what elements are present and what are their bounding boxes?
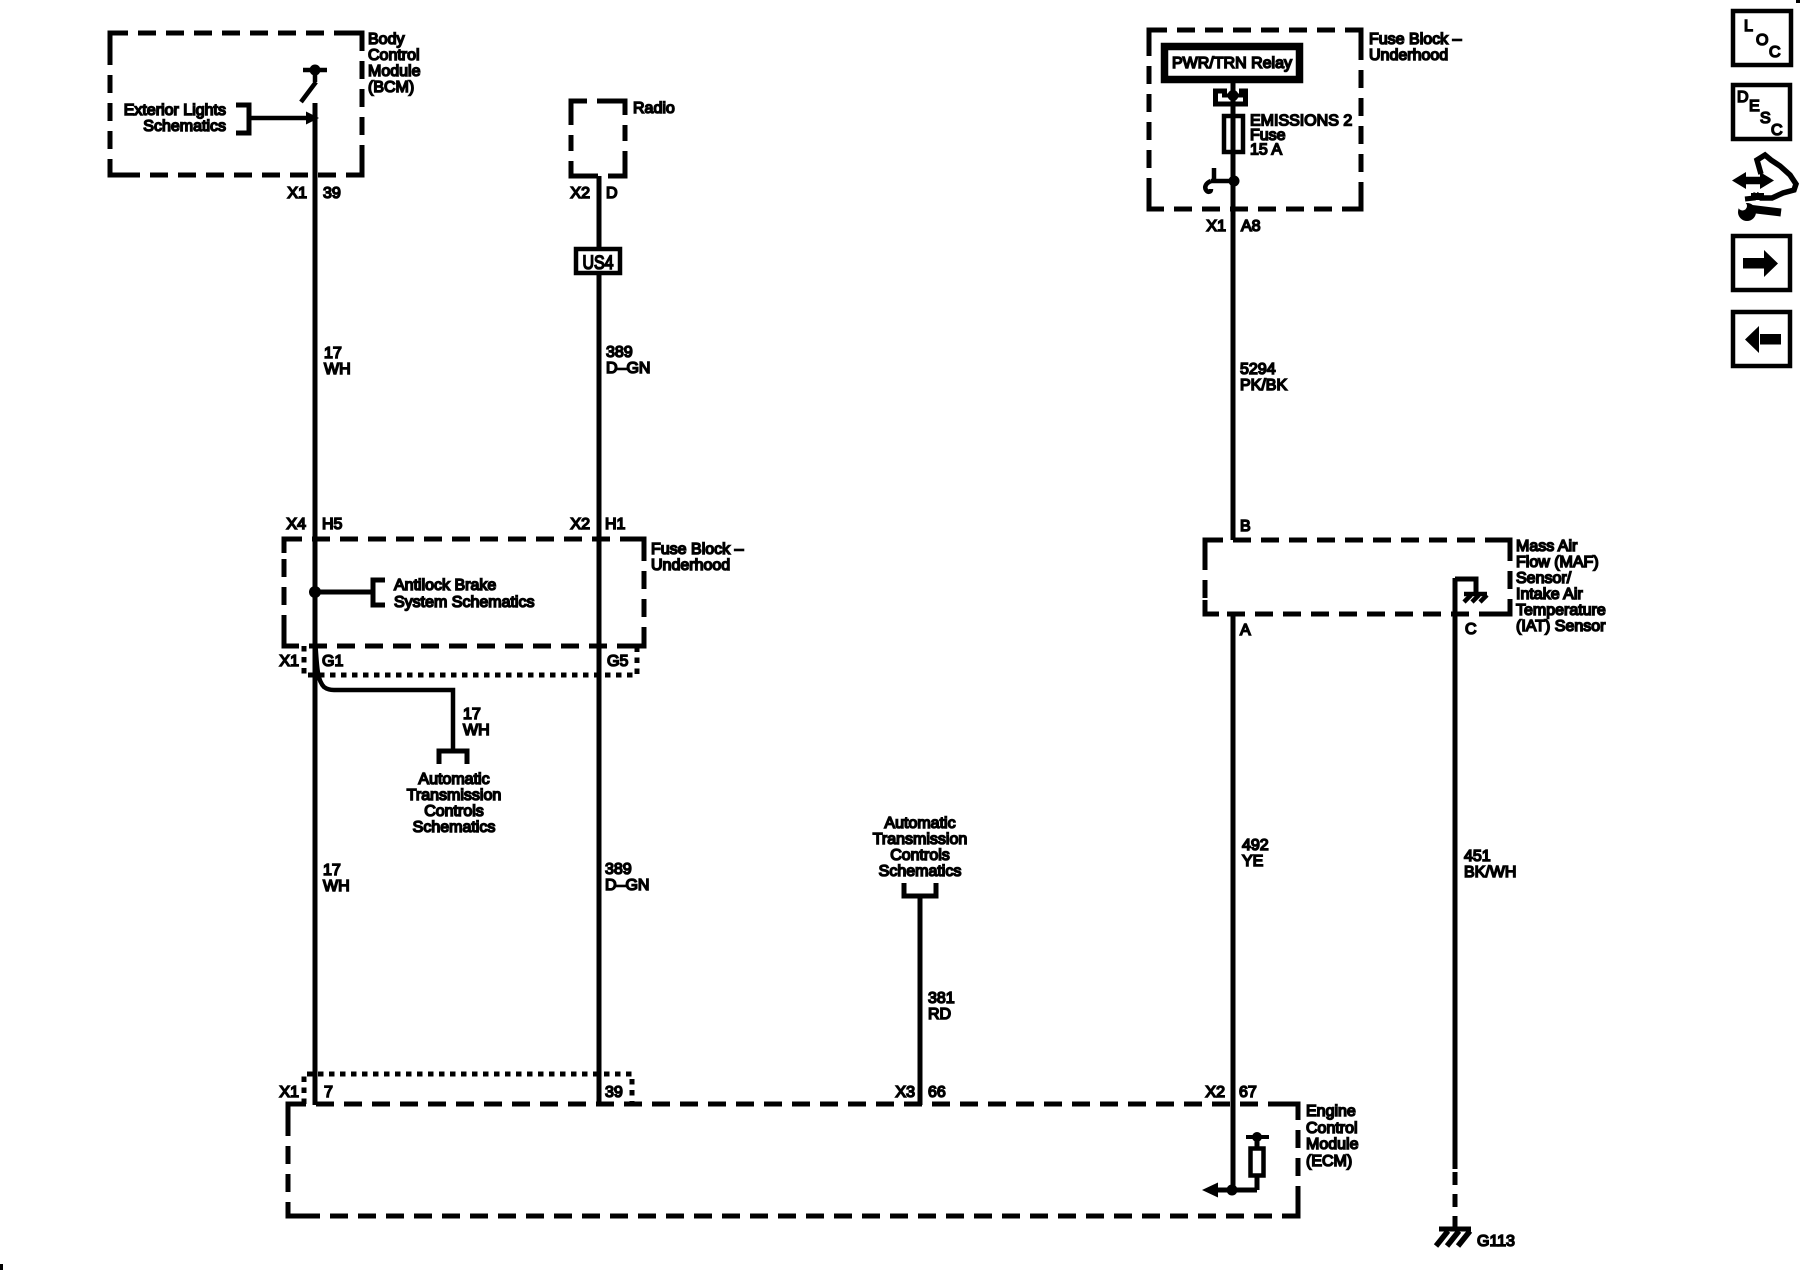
svg-text:Module: Module [368, 63, 421, 80]
pin label X2 67 [1205, 1084, 1256, 1101]
arrowhead pointing left inside ECM [1202, 1183, 1218, 1198]
wire label 389 D-GN lower [605, 861, 649, 894]
svg-text:15 A: 15 A [1250, 142, 1282, 159]
icon electrical repair (arrows and wrench) [1732, 155, 1796, 221]
svg-text:492: 492 [1242, 837, 1269, 854]
svg-text:E: E [1749, 98, 1760, 115]
svg-text:X2: X2 [570, 516, 590, 533]
wire 17 WH vertical (BCM to ECM pin 7) [313, 103, 318, 1105]
icon box LOC [1733, 11, 1791, 65]
wire label 17 WH branch [463, 706, 490, 739]
svg-text:17: 17 [324, 345, 342, 362]
junction node at pin 67 wire [1227, 1185, 1238, 1196]
svg-text:Radio: Radio [633, 100, 675, 117]
svg-text:PK/BK: PK/BK [1240, 377, 1287, 394]
fuse F1 EMISSIONS 2 15A [1224, 116, 1243, 152]
svg-text:X4: X4 [286, 516, 306, 533]
wire 5294 PK/BK vertical (fuse block to MAF pin B) [1231, 209, 1236, 540]
arrowhead into wire 17 WH [306, 112, 319, 125]
svg-text:Underhood: Underhood [1369, 47, 1448, 64]
icon box arrow left [1733, 312, 1790, 366]
svg-text:G5: G5 [607, 653, 628, 670]
switch S1 inside BCM [301, 65, 327, 103]
svg-text:B: B [1240, 518, 1251, 535]
resistor R1 inside ECM [1251, 1133, 1264, 1190]
label Mass Air Flow (MAF) Sensor / Intake Air Temperature (IAT) Sensor [1516, 538, 1606, 635]
svg-text:451: 451 [1464, 848, 1491, 865]
module box U1 Body Control Module (BCM) dashed outline [110, 33, 362, 175]
connector dotted box X1 G1 G5 [304, 646, 637, 675]
svg-text:C: C [1769, 44, 1781, 61]
svg-text:Exterior Lights: Exterior Lights [124, 102, 226, 119]
svg-text:Flow (MAF): Flow (MAF) [1516, 554, 1599, 571]
svg-text:Automatic: Automatic [418, 771, 489, 788]
svg-text:Control: Control [1306, 1120, 1358, 1137]
svg-text:PWR/TRN Relay: PWR/TRN Relay [1172, 55, 1292, 72]
junction node on wire 17 WH [309, 586, 321, 598]
svg-text:Underhood: Underhood [651, 557, 730, 574]
svg-text:G113: G113 [1477, 1233, 1515, 1250]
svg-text:Module: Module [1306, 1136, 1359, 1153]
label Engine Control Module (ECM) [1306, 1103, 1359, 1170]
svg-text:G1: G1 [322, 653, 343, 670]
label Exterior Lights Schematics [124, 102, 226, 135]
corner speck top right [1796, 0, 1800, 3]
svg-text:67: 67 [1239, 1084, 1257, 1101]
svg-text:WH: WH [324, 361, 351, 378]
pin label X2 D at Radio [570, 185, 617, 202]
label EMISSIONS 2 Fuse 15 A [1250, 113, 1352, 159]
icon box DESC [1733, 85, 1790, 139]
label Body Control Module (BCM) [368, 31, 421, 96]
wire 451 BK/WH vertical (MAF pin C down) [1453, 578, 1458, 1169]
svg-text:X3: X3 [895, 1084, 915, 1101]
svg-text:Temperature: Temperature [1516, 602, 1606, 619]
pin label X4 H5 [286, 516, 342, 533]
svg-text:Automatic: Automatic [884, 815, 955, 832]
module box Engine Control Module (ECM) dashed outline [288, 1104, 1298, 1216]
wire 492 YE vertical (MAF pin A to ECM pin 67) [1231, 614, 1236, 1190]
module box Mass Air Flow sensor dashed outline [1205, 540, 1510, 614]
module box Fuse Block Underhood (middle) dashed outline [284, 539, 644, 646]
svg-text:C: C [1465, 621, 1477, 638]
pin label X1 A8 [1206, 218, 1260, 235]
svg-text:YE: YE [1242, 853, 1263, 870]
svg-text:Body: Body [368, 31, 404, 48]
svg-text:X2: X2 [1205, 1084, 1225, 1101]
svg-text:389: 389 [605, 861, 632, 878]
svg-text:Fuse Block –: Fuse Block – [1369, 31, 1462, 48]
svg-text:A: A [1240, 622, 1251, 639]
svg-text:H1: H1 [605, 516, 626, 533]
svg-text:Transmission: Transmission [873, 831, 968, 848]
svg-text:L: L [1744, 18, 1753, 35]
svg-text:X2: X2 [570, 185, 590, 202]
svg-text:17: 17 [463, 706, 481, 723]
connector dotted box X1 at ECM [304, 1074, 632, 1104]
wire junction to Antilock bracket [315, 590, 373, 595]
wire label 451 BK/WH [1464, 848, 1516, 881]
off-page connector bracket to Antilock Brake System Schematics [373, 580, 385, 605]
module box Fuse Block Underhood (top right) dashed outline [1149, 30, 1361, 209]
wire label 5294 PK/BK [1240, 361, 1287, 394]
pin label X1 7 [279, 1084, 333, 1101]
svg-text:O: O [1756, 32, 1768, 49]
svg-text:A8: A8 [1241, 218, 1261, 235]
svg-text:Engine: Engine [1306, 1103, 1356, 1120]
wire dashed segment to ground G113 [1453, 1172, 1458, 1229]
pin label X1 G1 [279, 653, 343, 670]
svg-text:381: 381 [928, 990, 955, 1007]
label Automatic Transmission Controls Schematics (middle) [873, 815, 968, 880]
svg-text:D: D [1737, 89, 1749, 106]
svg-text:(ECM): (ECM) [1306, 1153, 1352, 1170]
svg-text:Control: Control [368, 47, 420, 64]
wire branch from G1 curving to Automatic Transmission bracket [316, 646, 454, 749]
pin label X2 H1 [570, 516, 625, 533]
svg-text:WH: WH [323, 878, 350, 895]
svg-text:(IAT) Sensor: (IAT) Sensor [1516, 618, 1606, 635]
svg-text:Controls: Controls [890, 847, 950, 864]
svg-text:D–GN: D–GN [606, 360, 650, 377]
svg-text:System Schematics: System Schematics [394, 594, 534, 611]
svg-text:(BCM): (BCM) [368, 79, 414, 96]
splice US4 box [576, 249, 620, 274]
svg-text:39: 39 [323, 185, 341, 202]
label Antilock Brake System Schematics [394, 577, 534, 611]
svg-text:C: C [1771, 122, 1783, 139]
svg-text:X1: X1 [1206, 218, 1226, 235]
svg-text:X1: X1 [279, 1084, 299, 1101]
svg-text:D: D [606, 185, 618, 202]
off-page bracket from Automatic Transmission Controls (middle) [904, 883, 936, 896]
svg-text:Intake Air: Intake Air [1516, 586, 1583, 603]
pin label X1 39 at BCM [287, 185, 340, 202]
module box Radio dashed outline [571, 101, 625, 176]
svg-text:Transmission: Transmission [407, 787, 502, 804]
wire from Exterior Lights bracket to node [249, 116, 308, 121]
wire label 389 D-GN upper [606, 344, 650, 377]
label Automatic Transmission Controls Schematics (left) [407, 771, 502, 836]
internal ground symbol inside MAF [1464, 594, 1487, 602]
wire 389 D-GN vertical (Radio to ECM pin 39) [597, 176, 602, 1105]
wire label 17 WH lower [323, 862, 350, 895]
svg-text:66: 66 [928, 1084, 946, 1101]
svg-text:WH: WH [463, 722, 490, 739]
svg-text:Controls: Controls [424, 803, 484, 820]
wire label 17 WH upper [324, 345, 351, 378]
svg-text:H5: H5 [322, 516, 343, 533]
label Fuse Block - Underhood (top right) [1369, 31, 1462, 64]
off-page bracket to Automatic Transmission Controls Schematics (left) [439, 751, 467, 764]
pin label X3 66 [895, 1084, 945, 1101]
svg-text:389: 389 [606, 344, 633, 361]
svg-text:X1: X1 [279, 653, 299, 670]
wire inside ECM horizontal to arrow [1210, 1188, 1257, 1193]
wire relay through fuse to block edge [1231, 83, 1236, 209]
connector hook symbol below fuse [1205, 168, 1239, 192]
svg-text:17: 17 [323, 862, 341, 879]
ground G113 chassis symbol [1436, 1229, 1471, 1246]
svg-text:Schematics: Schematics [879, 863, 962, 880]
svg-text:D–GN: D–GN [605, 877, 649, 894]
wire 381 RD vertical (bracket to ECM pin 66) [918, 896, 923, 1105]
off-page connector bracket to Exterior Lights Schematics [236, 105, 249, 133]
svg-text:S: S [1760, 110, 1771, 127]
relay K1 PWR/TRN Relay box [1165, 47, 1300, 80]
connector symbol below relay [1213, 90, 1248, 104]
wire label 381 RD [928, 990, 955, 1023]
svg-text:39: 39 [605, 1084, 623, 1101]
svg-text:5294: 5294 [1240, 361, 1276, 378]
connector T symbol above resistor [1246, 1132, 1269, 1142]
svg-text:Sensor/: Sensor/ [1516, 570, 1572, 587]
svg-text:US4: US4 [583, 253, 614, 274]
svg-text:RD: RD [928, 1006, 951, 1023]
icon box arrow right [1733, 236, 1790, 290]
label Fuse Block - Underhood (middle) [651, 541, 744, 574]
svg-text:Mass Air: Mass Air [1516, 538, 1578, 555]
svg-text:Fuse Block –: Fuse Block – [651, 541, 744, 558]
svg-text:Antilock Brake: Antilock Brake [394, 577, 496, 594]
svg-text:Schematics: Schematics [143, 118, 226, 135]
corner speck bottom left [0, 1264, 3, 1270]
wire label 492 YE [1242, 837, 1269, 870]
svg-text:X1: X1 [287, 185, 307, 202]
svg-text:BK/WH: BK/WH [1464, 864, 1516, 881]
svg-text:Schematics: Schematics [413, 819, 496, 836]
wire hook inside MAF to internal ground [1455, 579, 1476, 592]
svg-text:7: 7 [324, 1084, 333, 1101]
